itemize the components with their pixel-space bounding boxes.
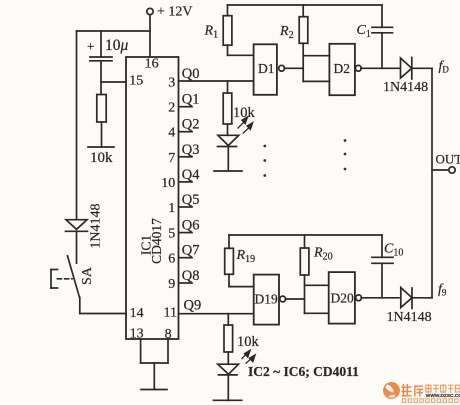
svg-text:Q9: Q9 <box>184 298 202 314</box>
svg-text:Q5: Q5 <box>182 192 200 208</box>
svg-text:R20: R20 <box>313 246 333 263</box>
svg-text:7: 7 <box>168 151 175 166</box>
svg-text:16: 16 <box>145 57 159 72</box>
svg-text:C1: C1 <box>357 23 371 40</box>
svg-text:D1: D1 <box>258 61 275 76</box>
svg-text:11: 11 <box>164 306 177 321</box>
svg-text:10k: 10k <box>90 150 113 166</box>
svg-text:IC2 ~ IC6; CD4011: IC2 ~ IC6; CD4011 <box>248 364 359 379</box>
svg-text:8: 8 <box>165 327 172 342</box>
svg-text:SA: SA <box>80 266 95 285</box>
svg-text:D2: D2 <box>334 61 351 76</box>
svg-text:10: 10 <box>161 176 175 191</box>
svg-text:Q0: Q0 <box>182 66 200 82</box>
svg-text:1N4148: 1N4148 <box>89 203 104 248</box>
svg-text:R1: R1 <box>204 24 219 41</box>
svg-text:D20: D20 <box>331 291 354 306</box>
svg-text:10k: 10k <box>237 334 260 350</box>
svg-text:5: 5 <box>168 227 175 242</box>
svg-text:Q7: Q7 <box>182 243 200 259</box>
svg-text:2: 2 <box>168 101 175 116</box>
svg-text:4: 4 <box>168 126 175 141</box>
svg-text:Q2: Q2 <box>182 117 200 133</box>
svg-text:CD4017: CD4017 <box>149 218 164 264</box>
svg-text:14: 14 <box>130 306 144 321</box>
svg-text:WWW.DZSC.COM: WWW.DZSC.COM <box>426 393 460 399</box>
svg-text:fD: fD <box>439 59 450 75</box>
svg-text:13: 13 <box>130 327 144 342</box>
svg-text:1: 1 <box>168 201 175 216</box>
svg-text:Q3: Q3 <box>182 142 200 158</box>
svg-text:6: 6 <box>168 252 175 267</box>
svg-text:10μ: 10μ <box>105 37 129 54</box>
svg-text:3: 3 <box>168 76 175 91</box>
svg-text:1N4148: 1N4148 <box>383 80 428 95</box>
svg-text:R2: R2 <box>279 24 294 41</box>
svg-text:OUT: OUT <box>436 152 460 167</box>
svg-text:D19: D19 <box>255 292 278 307</box>
svg-text:C10: C10 <box>384 242 403 259</box>
svg-text:f9: f9 <box>438 282 447 298</box>
svg-text:Q1: Q1 <box>182 92 200 108</box>
svg-text:Q8: Q8 <box>182 268 200 284</box>
svg-text:15: 15 <box>129 74 143 89</box>
svg-text:Q6: Q6 <box>182 218 200 234</box>
svg-text:10k: 10k <box>233 105 256 121</box>
svg-text:Q4: Q4 <box>182 167 200 183</box>
svg-text:1N4148: 1N4148 <box>387 310 432 325</box>
svg-text:+: + <box>87 39 94 54</box>
svg-text:+ 12V: + 12V <box>157 5 193 20</box>
svg-text:9: 9 <box>168 277 175 292</box>
svg-text:R19: R19 <box>236 248 256 265</box>
